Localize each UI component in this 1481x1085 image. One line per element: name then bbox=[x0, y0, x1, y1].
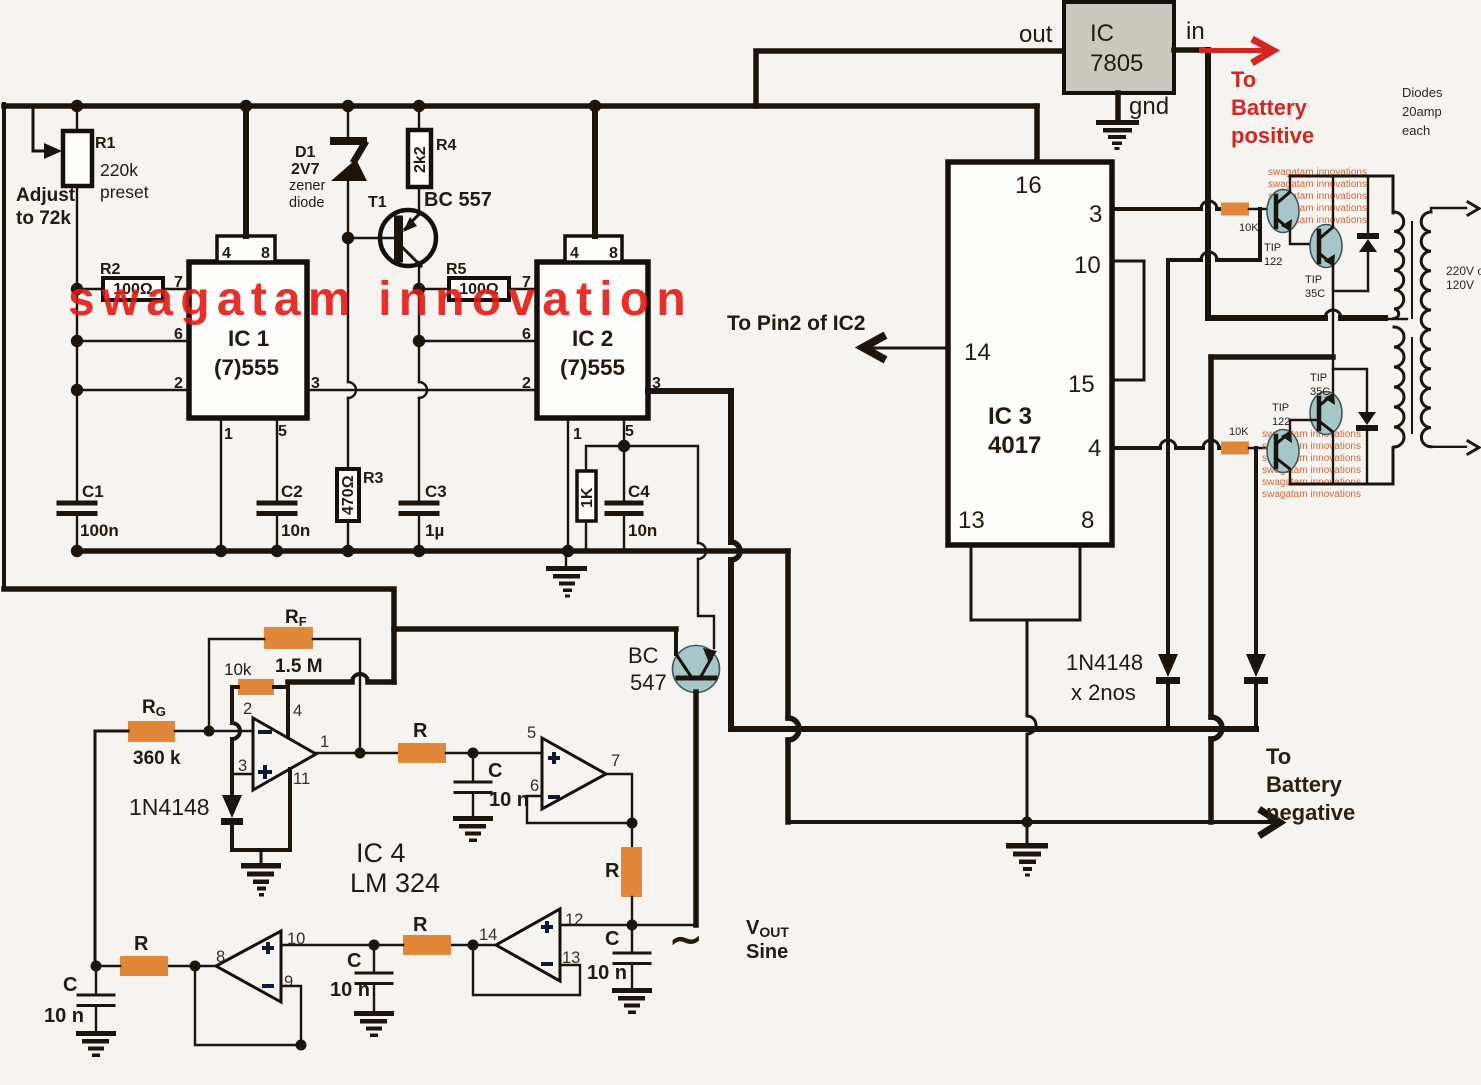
wire: left border vertical (feedback to LM324) bbox=[2, 104, 6, 589]
wire: lower TIP122 collector to lower rail bbox=[1289, 469, 1291, 484]
diode D4 20amp (upper) bbox=[1367, 176, 1369, 233]
wire: D1 column down to R3 (hops pin3 wire) bbox=[347, 238, 349, 469]
wire: pin2 IC1 bbox=[77, 389, 189, 391]
svg-text:C1: C1 bbox=[82, 482, 104, 501]
wire: feedback bus from left border to LM324 supply bbox=[4, 589, 394, 682]
svg-text:R: R bbox=[413, 914, 428, 936]
svg-text:R: R bbox=[605, 860, 620, 882]
node: T1 base junction bbox=[342, 232, 354, 244]
svg-text:547: 547 bbox=[630, 670, 667, 695]
svg-text:120V: 120V bbox=[1446, 278, 1474, 292]
transistor Q2 TIP35C (upper) bbox=[1310, 225, 1342, 268]
svg-text:122: 122 bbox=[1272, 416, 1290, 428]
svg-text:positive: positive bbox=[1231, 123, 1314, 148]
svg-text:R4: R4 bbox=[436, 137, 457, 154]
wire: opamp1 pin3 branch bbox=[232, 773, 253, 775]
svg-text:(7)555: (7)555 bbox=[214, 355, 279, 380]
wire: IC3 pins 13,8 ground loop bbox=[971, 545, 1080, 620]
capacitor C4 10n bbox=[623, 446, 625, 502]
svg-text:5: 5 bbox=[527, 724, 536, 742]
transistor Q4 TIP122 (lower) bbox=[1267, 430, 1299, 473]
svg-text:R1: R1 bbox=[95, 135, 116, 152]
capacitor C 10n (opamp2 input) bbox=[472, 753, 474, 781]
resistor R1 220k preset bbox=[63, 131, 92, 186]
capacitor C3 1u bbox=[401, 503, 437, 514]
node: junction pin2 column bbox=[71, 384, 83, 396]
node: ground junction bbox=[1022, 817, 1033, 828]
svg-text:15: 15 bbox=[1068, 371, 1095, 398]
wire: opamp2 output bbox=[606, 774, 632, 823]
wire: lower TIP35C collector to lower rail bbox=[1332, 432, 1334, 484]
svg-text:8: 8 bbox=[1081, 507, 1094, 534]
svg-text:7805: 7805 bbox=[1090, 50, 1143, 77]
svg-text:1K: 1K bbox=[579, 487, 596, 508]
svg-text:1N4148: 1N4148 bbox=[129, 794, 210, 820]
svg-text:4: 4 bbox=[1088, 435, 1101, 462]
capacitor C 10n (opamp4 node) bbox=[373, 945, 375, 972]
IC timer U1 555 bbox=[189, 262, 307, 418]
svg-text:470Ω: 470Ω bbox=[340, 475, 357, 515]
node: rail junction R1 bbox=[71, 100, 83, 112]
wire: +12V top rail bbox=[4, 103, 1037, 109]
wire: emitter column down to midpoint bbox=[1332, 264, 1334, 357]
wire: opamp2 feedback bbox=[527, 796, 632, 823]
svg-text:∼: ∼ bbox=[669, 918, 703, 962]
svg-text:16: 16 bbox=[1015, 172, 1042, 199]
svg-text:220V or: 220V or bbox=[1446, 264, 1481, 278]
svg-text:2: 2 bbox=[174, 375, 183, 392]
ground: 7805 gnd symbol bbox=[1115, 93, 1121, 122]
svg-text:12: 12 bbox=[565, 911, 583, 929]
wire: midpoint to battery negative corner bbox=[1211, 354, 1333, 360]
svg-text:LM 324: LM 324 bbox=[350, 868, 440, 898]
svg-text:x 2nos: x 2nos bbox=[1071, 680, 1136, 705]
wire: BC547 collector down to opamp3 node bbox=[693, 692, 699, 925]
node: rail junction R4 bbox=[413, 100, 425, 112]
svg-text:8: 8 bbox=[609, 245, 618, 262]
wire: TIP122 collector to stage rail bbox=[1289, 176, 1291, 192]
wire: pin5 node to BC547 emitter (hops ground rail) bbox=[624, 446, 714, 648]
svg-text:14: 14 bbox=[479, 926, 497, 944]
arrow: To Battery positive (red) bbox=[1199, 48, 1268, 53]
node: opamp4 output C junction bbox=[369, 940, 380, 951]
svg-text:10 n: 10 n bbox=[587, 962, 627, 984]
svg-text:10k: 10k bbox=[224, 660, 252, 679]
resistor 10k bbox=[238, 679, 274, 695]
wire: T1 collector to R5 node bbox=[418, 262, 420, 289]
wire: IC1 pin5 to C2 bbox=[276, 418, 278, 502]
wire: IC1 pin1 to ground rail bbox=[220, 418, 222, 551]
svg-text:To: To bbox=[1231, 67, 1256, 92]
svg-text:220k: 220k bbox=[100, 160, 138, 180]
wire: secondary output bottom bbox=[1431, 446, 1466, 448]
resistor 1K bbox=[586, 446, 624, 471]
transistor Q1 TIP122 (upper) bbox=[1267, 190, 1299, 233]
watermark: swagatam innovations (upper block) bbox=[1268, 167, 1367, 226]
svg-text:2k2: 2k2 bbox=[412, 146, 429, 173]
svg-text:1.5 M: 1.5 M bbox=[275, 656, 323, 677]
node: opamp2 output junction bbox=[627, 818, 638, 829]
svg-text:TIP: TIP bbox=[1310, 372, 1327, 384]
svg-text:IC 1: IC 1 bbox=[228, 326, 269, 351]
resistor R (opamp4 input side) bbox=[120, 956, 168, 976]
ground: opamp1 ground bbox=[260, 850, 263, 863]
wire: 10K to TIP122 base bbox=[1249, 208, 1272, 210]
svg-text:T1: T1 bbox=[368, 194, 387, 211]
svg-text:122: 122 bbox=[1264, 256, 1282, 268]
wire: IC3 pin3 to 10K (hops battery positive) bbox=[1112, 207, 1221, 211]
arrow: preset adjust wiper bbox=[33, 108, 46, 151]
IC counter U3 4017 bbox=[948, 162, 1112, 545]
svg-text:gnd: gnd bbox=[1129, 93, 1169, 120]
svg-text:C: C bbox=[605, 928, 619, 950]
svg-text:5: 5 bbox=[625, 423, 634, 440]
svg-text:C: C bbox=[347, 950, 361, 972]
svg-text:in: in bbox=[1186, 18, 1205, 45]
wire: ground rail bbox=[77, 548, 788, 554]
svg-text:10 n: 10 n bbox=[44, 1005, 84, 1027]
wire: opamp3 feedback loop bbox=[473, 945, 580, 995]
wire: IC2 pin6 bbox=[419, 340, 537, 342]
wire: supply line to opamp pin4 (hops RF output line) bbox=[288, 679, 394, 685]
capacitor C 10n (opamp4 input) bbox=[95, 966, 97, 994]
wire: 10K to lower TIP122 base bbox=[1249, 447, 1272, 449]
svg-text:1: 1 bbox=[573, 426, 582, 443]
svg-text:10 n: 10 n bbox=[489, 789, 529, 811]
svg-text:Sine: Sine bbox=[746, 941, 788, 963]
svg-text:D1: D1 bbox=[295, 144, 316, 161]
node: opamp4 output junction bbox=[190, 961, 201, 972]
node: opamp3 output junction bbox=[468, 940, 479, 951]
wire: upper stage rail to transformer top bbox=[1290, 176, 1393, 213]
wire: battery positive horizontal to transformer center tap (hops x=1333) bbox=[1208, 315, 1385, 321]
wire: opamp4 output bbox=[168, 965, 216, 967]
svg-text:BC 557: BC 557 bbox=[424, 189, 492, 211]
wire: rail corner down to IC3 pin 16 bbox=[1034, 106, 1040, 162]
svg-text:7: 7 bbox=[611, 752, 620, 770]
IC regulator U5 7805 bbox=[1064, 2, 1174, 93]
wire + resistor R5 100R bbox=[419, 288, 537, 290]
node: rail junction D1 bbox=[342, 100, 354, 112]
svg-text:2: 2 bbox=[522, 375, 531, 392]
resistor R4 2k2 bbox=[418, 106, 420, 130]
svg-text:20amp: 20amp bbox=[1402, 104, 1442, 119]
svg-text:4017: 4017 bbox=[988, 432, 1041, 459]
transformer T2 secondary winding bbox=[1421, 212, 1431, 447]
wire: IC3 pin14 arrow to Pin2 of IC2 bbox=[866, 347, 948, 350]
op-amp U4C bbox=[496, 909, 560, 981]
resistor R3 470R bbox=[337, 469, 359, 521]
svg-text:negative: negative bbox=[1266, 800, 1355, 825]
wire: IC3 pin10 to pin15 link bbox=[1112, 261, 1144, 380]
node: C junction opamp2 input bbox=[468, 748, 479, 759]
wire: junction to BC547 collector bbox=[632, 924, 697, 926]
svg-text:6: 6 bbox=[174, 326, 183, 343]
op-amp U4A bbox=[253, 718, 316, 790]
resistor RF 1.5M bbox=[264, 627, 313, 649]
svg-text:35C: 35C bbox=[1305, 288, 1325, 300]
wire: opamp3 pin12 input bbox=[560, 924, 632, 926]
diode D3 1N4148 (lower) bbox=[1246, 654, 1266, 677]
svg-text:10 n: 10 n bbox=[330, 979, 370, 1001]
transformer T2 primary winding bbox=[1394, 212, 1404, 447]
svg-text:C: C bbox=[63, 974, 77, 996]
ground: main ground symbol bbox=[1026, 822, 1029, 843]
svg-text:R3: R3 bbox=[363, 470, 384, 487]
diode D6 1N4148 bbox=[222, 795, 242, 818]
svg-text:To Pin2 of IC2: To Pin2 of IC2 bbox=[727, 312, 865, 335]
wire: opamp1 output bbox=[316, 752, 398, 754]
wire: ground rail corner down to battery negative line (hops pin3 line) bbox=[785, 551, 791, 822]
resistor 10K (upper) bbox=[1221, 203, 1249, 216]
ground: 555 ground symbol bbox=[565, 551, 567, 566]
svg-text:R: R bbox=[413, 720, 428, 742]
wire: opamp3 output bbox=[451, 944, 496, 946]
svg-text:2V7: 2V7 bbox=[291, 161, 320, 178]
svg-text:preset: preset bbox=[100, 182, 149, 202]
wire: TIP35C emitter node bbox=[1333, 264, 1368, 291]
capacitor C 10n (opamp3 node) bbox=[631, 925, 633, 952]
svg-text:each: each bbox=[1402, 123, 1430, 138]
svg-text:6: 6 bbox=[522, 326, 531, 343]
resistor R (between opamp4 and opamp3) bbox=[403, 935, 451, 955]
diode D5 20amp (lower) bbox=[1333, 369, 1367, 412]
wire: battery positive vertical bbox=[1205, 50, 1211, 318]
wire: RG column bbox=[95, 731, 128, 966]
wire: IC2 supply from rail bbox=[592, 106, 598, 236]
wire: pin6 IC1 bbox=[77, 340, 189, 342]
node: C/RG junction bbox=[91, 961, 102, 972]
node: junction pin6 column bbox=[71, 335, 83, 347]
arrow: To Battery negative bbox=[1211, 820, 1274, 824]
svg-text:swagatam innovations: swagatam innovations bbox=[1268, 179, 1367, 190]
transistor T1 BC557 bbox=[380, 210, 436, 266]
svg-text:C2: C2 bbox=[281, 482, 303, 501]
svg-text:13: 13 bbox=[958, 507, 985, 534]
wire: T1 column down to C3 (hops pin2 wire) bbox=[418, 289, 420, 502]
svg-text:C4: C4 bbox=[628, 482, 650, 501]
wire: IC2 pin5 node bbox=[623, 418, 625, 446]
wire: diode to ground bar and opamp pin11 bbox=[232, 769, 290, 850]
svg-text:R: R bbox=[134, 933, 149, 955]
wire: 7805 in pin to battery positive node bbox=[1174, 47, 1208, 53]
IC timer U2 555 bbox=[537, 262, 648, 418]
svg-text:Battery: Battery bbox=[1266, 772, 1343, 797]
node: junction pin7 column bbox=[71, 283, 83, 295]
wire: opamp4 feedback loop bbox=[195, 966, 301, 1045]
svg-text:Adjust: Adjust bbox=[16, 185, 76, 206]
svg-text:To: To bbox=[1266, 744, 1291, 769]
node: feedback corner junction bbox=[296, 1040, 307, 1051]
svg-text:C: C bbox=[488, 760, 502, 782]
svg-text:35C: 35C bbox=[1310, 386, 1330, 398]
wire: TIP122 emitter to TIP35C base bbox=[1290, 230, 1319, 244]
node: RF/output junction bbox=[355, 748, 366, 759]
svg-text:diode: diode bbox=[289, 195, 324, 211]
svg-text:10K: 10K bbox=[1239, 222, 1259, 234]
wire: IC3 ground stem (hops pin3 line) bbox=[1026, 620, 1029, 822]
svg-text:Battery: Battery bbox=[1231, 95, 1308, 120]
svg-text:to 72k: to 72k bbox=[16, 208, 71, 229]
svg-text:C3: C3 bbox=[425, 482, 447, 501]
wire: lower 1N4148 from base node bbox=[1254, 448, 1258, 654]
wire: RG to opamp1 inverting input bbox=[175, 730, 253, 732]
svg-text:10: 10 bbox=[287, 930, 305, 948]
wire: R1 feed from rail bbox=[76, 106, 78, 131]
transformer core bbox=[1411, 222, 1413, 433]
wire: IC2 pin3 output down and across bbox=[648, 391, 731, 729]
op-amp U4B bbox=[542, 738, 606, 809]
wire: IC3 pin4 to 10K (hops diode line and battery negative line) bbox=[1112, 446, 1221, 450]
wire: R1 bottom column bbox=[76, 186, 78, 502]
svg-text:11: 11 bbox=[293, 770, 310, 788]
wire: pin7 IC1 with resistor R2 bbox=[77, 288, 189, 290]
wire: battery negative vertical from output stage (hops pin3 line) bbox=[1208, 357, 1214, 822]
op-amp U4D bbox=[216, 931, 281, 1002]
svg-text:(7)555: (7)555 bbox=[560, 355, 625, 380]
wire: thick branch to BC547 base bbox=[394, 626, 676, 632]
svg-text:3: 3 bbox=[1089, 201, 1102, 228]
resistor R (opamp1 out) bbox=[398, 743, 446, 763]
svg-text:IC: IC bbox=[1090, 20, 1114, 47]
svg-text:6: 6 bbox=[530, 777, 539, 795]
wire: IC1 supply from rail bbox=[243, 106, 249, 236]
svg-text:TIP: TIP bbox=[1272, 402, 1289, 414]
svg-text:4: 4 bbox=[570, 245, 579, 262]
svg-text:1µ: 1µ bbox=[425, 521, 444, 540]
svg-text:8: 8 bbox=[216, 948, 225, 966]
svg-text:IC 3: IC 3 bbox=[988, 403, 1032, 430]
wire: upper 1N4148 from base node (hops battery positive) bbox=[1168, 209, 1260, 654]
svg-text:Diodes: Diodes bbox=[1402, 85, 1443, 100]
svg-text:4: 4 bbox=[293, 702, 302, 720]
resistor RG 360k bbox=[128, 721, 175, 742]
svg-text:TIP: TIP bbox=[1264, 242, 1281, 254]
node: IC2 pin6 junction bbox=[413, 335, 425, 347]
svg-text:4: 4 bbox=[222, 245, 231, 262]
resistor R2 100R bbox=[103, 278, 163, 300]
diode D1 zener 2V7 bbox=[347, 106, 349, 140]
wire: secondary output top bbox=[1431, 208, 1466, 212]
wire: battery negative bus bbox=[788, 820, 1211, 824]
wire: 10k left lead down to diode (hops RG wire) bbox=[232, 687, 238, 795]
svg-text:swagatam innovations: swagatam innovations bbox=[1262, 489, 1361, 500]
svg-text:IC 4: IC 4 bbox=[356, 838, 406, 868]
svg-text:5: 5 bbox=[278, 423, 287, 440]
wire: IC1 pin3 to IC2 pin2 bbox=[307, 389, 537, 391]
svg-text:1: 1 bbox=[224, 426, 233, 443]
svg-text:10: 10 bbox=[1074, 252, 1101, 279]
transistor Q5 BC547 bbox=[394, 629, 676, 654]
svg-text:IC 2: IC 2 bbox=[572, 326, 613, 351]
svg-text:swagatam innovation: swagatam innovation bbox=[68, 273, 693, 326]
wire: lower TIP122 emitter to lower TIP35C base bbox=[1290, 420, 1319, 433]
svg-text:out: out bbox=[1019, 21, 1053, 48]
wire: IC2 pin1 to ground rail bbox=[567, 418, 569, 551]
resistor 10K (lower) bbox=[1221, 442, 1249, 455]
svg-text:1N4148: 1N4148 bbox=[1066, 650, 1143, 675]
svg-text:3: 3 bbox=[238, 757, 247, 775]
watermark: swagatam innovations (lower block) bbox=[1262, 429, 1361, 500]
svg-text:10n: 10n bbox=[281, 521, 310, 540]
wire: TIP35C collector to stage rail bbox=[1332, 176, 1334, 227]
node: opamp3 input junction bbox=[627, 920, 638, 931]
node: RG/RF junction bbox=[204, 726, 215, 737]
svg-text:10n: 10n bbox=[628, 521, 657, 540]
diode D2 1N4148 (upper) bbox=[1158, 654, 1178, 677]
svg-text:14: 14 bbox=[964, 339, 991, 366]
capacitor C2 10n bbox=[259, 503, 295, 514]
svg-text:1: 1 bbox=[320, 733, 329, 751]
transistor Q3 TIP35C (lower) bbox=[1332, 357, 1334, 396]
svg-text:9: 9 bbox=[284, 973, 293, 991]
svg-text:8: 8 bbox=[261, 245, 270, 262]
svg-text:360 k: 360 k bbox=[133, 748, 181, 769]
svg-text:BC: BC bbox=[628, 643, 659, 668]
svg-text:zener: zener bbox=[289, 178, 325, 194]
capacitor C1 100n bbox=[59, 503, 95, 514]
svg-text:10K: 10K bbox=[1229, 426, 1249, 438]
svg-text:100n: 100n bbox=[80, 521, 119, 540]
wire: lower stage rail to transformer bottom bbox=[1290, 448, 1393, 484]
node: R5 junction bbox=[413, 283, 425, 295]
svg-text:2: 2 bbox=[243, 700, 252, 718]
svg-text:TIP: TIP bbox=[1305, 274, 1322, 286]
wire: 7805 out to rail bbox=[756, 51, 1064, 106]
resistor R (vertical) bbox=[631, 823, 633, 847]
